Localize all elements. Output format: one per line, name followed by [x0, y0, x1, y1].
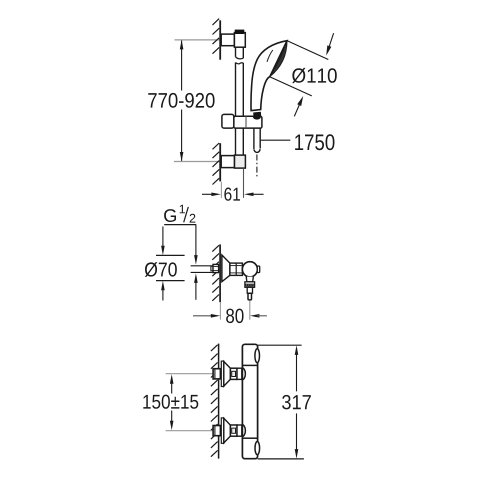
wall (bottom view)	[218, 344, 220, 459]
dimension 61 extension line left (gray)	[220, 182, 222, 198]
holder knob	[222, 114, 234, 128]
dimension text 317	[282, 395, 311, 410]
rail top clamp	[234, 33, 245, 48]
bottom inlet escutcheon flange	[221, 418, 224, 443]
extension line bottom inlet (gray)	[166, 430, 213, 432]
top inlet S-union block behind wall	[213, 369, 220, 379]
hose connector in holder (dark ellipse)	[253, 115, 261, 120]
dimension text 770-920	[148, 93, 214, 108]
body bottom divider	[242, 437, 257, 439]
rail bottom wall bracket	[221, 156, 234, 168]
label G 1/2	[164, 209, 176, 222]
bottom inlet escutcheon cone	[224, 418, 231, 443]
top inlet escutcheon cone	[224, 362, 231, 387]
G1/2 threaded nipple behind wall	[211, 266, 213, 271]
dimension text 80	[226, 309, 243, 324]
ball right cap	[257, 266, 259, 273]
dimension Ø70 upper extension line	[156, 254, 185, 256]
leader line 1750	[261, 139, 291, 141]
wall (middle view)	[219, 244, 221, 302]
dimension 317 line	[296, 352, 298, 391]
dimension 61 arrows	[202, 193, 213, 195]
bottom inlet inlet stub	[237, 425, 242, 436]
dimension 61 extension line right	[243, 168, 245, 198]
dimension 317 extension line top	[258, 344, 302, 346]
body top divider	[242, 364, 257, 366]
G1/2 nipple extension line upper	[191, 265, 213, 267]
shower rail tube main segment	[235, 62, 237, 116]
dimension text 61	[224, 188, 240, 201]
dimension text 150±15	[143, 395, 198, 409]
dimension 317 extension line bottom	[258, 458, 304, 460]
dimension Ø110 arrow upper	[327, 33, 333, 52]
hand shower inner rim line	[267, 50, 273, 62]
top knob edge ellipse	[255, 349, 260, 363]
wall (top mounting, lower piece)	[219, 143, 221, 181]
top inlet union nut	[230, 368, 237, 379]
rail end cap (dark)	[235, 30, 243, 33]
rail break symbol	[236, 57, 244, 59]
bottom inlet rounded end bump	[242, 425, 246, 437]
wire extension line top (770-920 upper, gray)	[175, 39, 220, 41]
dimension text 1750	[295, 134, 334, 150]
rail top wall bracket	[221, 34, 234, 46]
dimension G1/2 lower arrow	[194, 273, 198, 283]
bottom inlet union nut	[230, 425, 237, 436]
rail bottom clamp	[235, 155, 246, 168]
dimension text Ø110	[292, 68, 337, 83]
bottom knob edge ellipse	[255, 442, 260, 455]
label G 1/2 underline	[164, 224, 196, 226]
hose centerline dash-dot	[256, 155, 258, 179]
hand shower body and handle	[251, 41, 287, 111]
escutcheon cone	[222, 255, 230, 282]
shower rail tube upper segment	[235, 47, 237, 57]
hose union nut with knurling	[245, 282, 255, 288]
ball body of union	[242, 262, 257, 277]
shower rail tube lower segment	[235, 128, 237, 155]
shower holder body	[234, 116, 262, 128]
outlet tip	[248, 293, 252, 300]
dimension 770-920 line upper part	[181, 41, 183, 91]
dimension 150±15	[171, 381, 173, 394]
dimension 80	[193, 315, 213, 317]
outlet tube	[247, 287, 252, 293]
holder inner divider	[245, 116, 247, 128]
dimension Ø70 lower arrow	[161, 281, 165, 291]
dimension text Ø70	[145, 262, 177, 277]
outlet taper below ball	[246, 277, 253, 282]
dimension Ø70 lower extension line	[156, 280, 185, 282]
wall extension line down to 80 dim (gray)	[219, 302, 221, 319]
escutcheon backplate	[221, 255, 223, 281]
extension line top inlet (gray)	[166, 373, 213, 375]
dimension Ø110 arrow lower	[294, 99, 302, 116]
union neck	[230, 263, 243, 275]
shower hose rounded end	[254, 149, 260, 152]
dimension 770-920 line lower part	[181, 110, 183, 161]
shower hose upper segment	[253, 128, 255, 149]
wire extension line bottom (770-920 lower, gray)	[174, 161, 220, 163]
dimension Ø70 upper arrow	[162, 227, 164, 249]
hose nut under handle (dark)	[253, 112, 261, 118]
dimension Ø110 extension line lower	[270, 77, 312, 96]
thermostat body	[242, 344, 257, 458]
bottom inlet S-union block behind wall	[213, 426, 220, 436]
dimension G1/2 upper arrow	[195, 225, 197, 258]
dimension Ø110 extension line upper	[287, 41, 328, 60]
G1/2 nipple extension line lower	[191, 271, 213, 273]
wall (top mounting, upper piece)	[219, 20, 221, 59]
top inlet rounded end bump	[242, 368, 246, 380]
hand shower spray face (stippled)	[270, 41, 287, 77]
top inlet inlet stub	[237, 368, 242, 379]
top inlet escutcheon flange	[221, 361, 224, 386]
outlet extension line down (gray)	[249, 301, 251, 320]
